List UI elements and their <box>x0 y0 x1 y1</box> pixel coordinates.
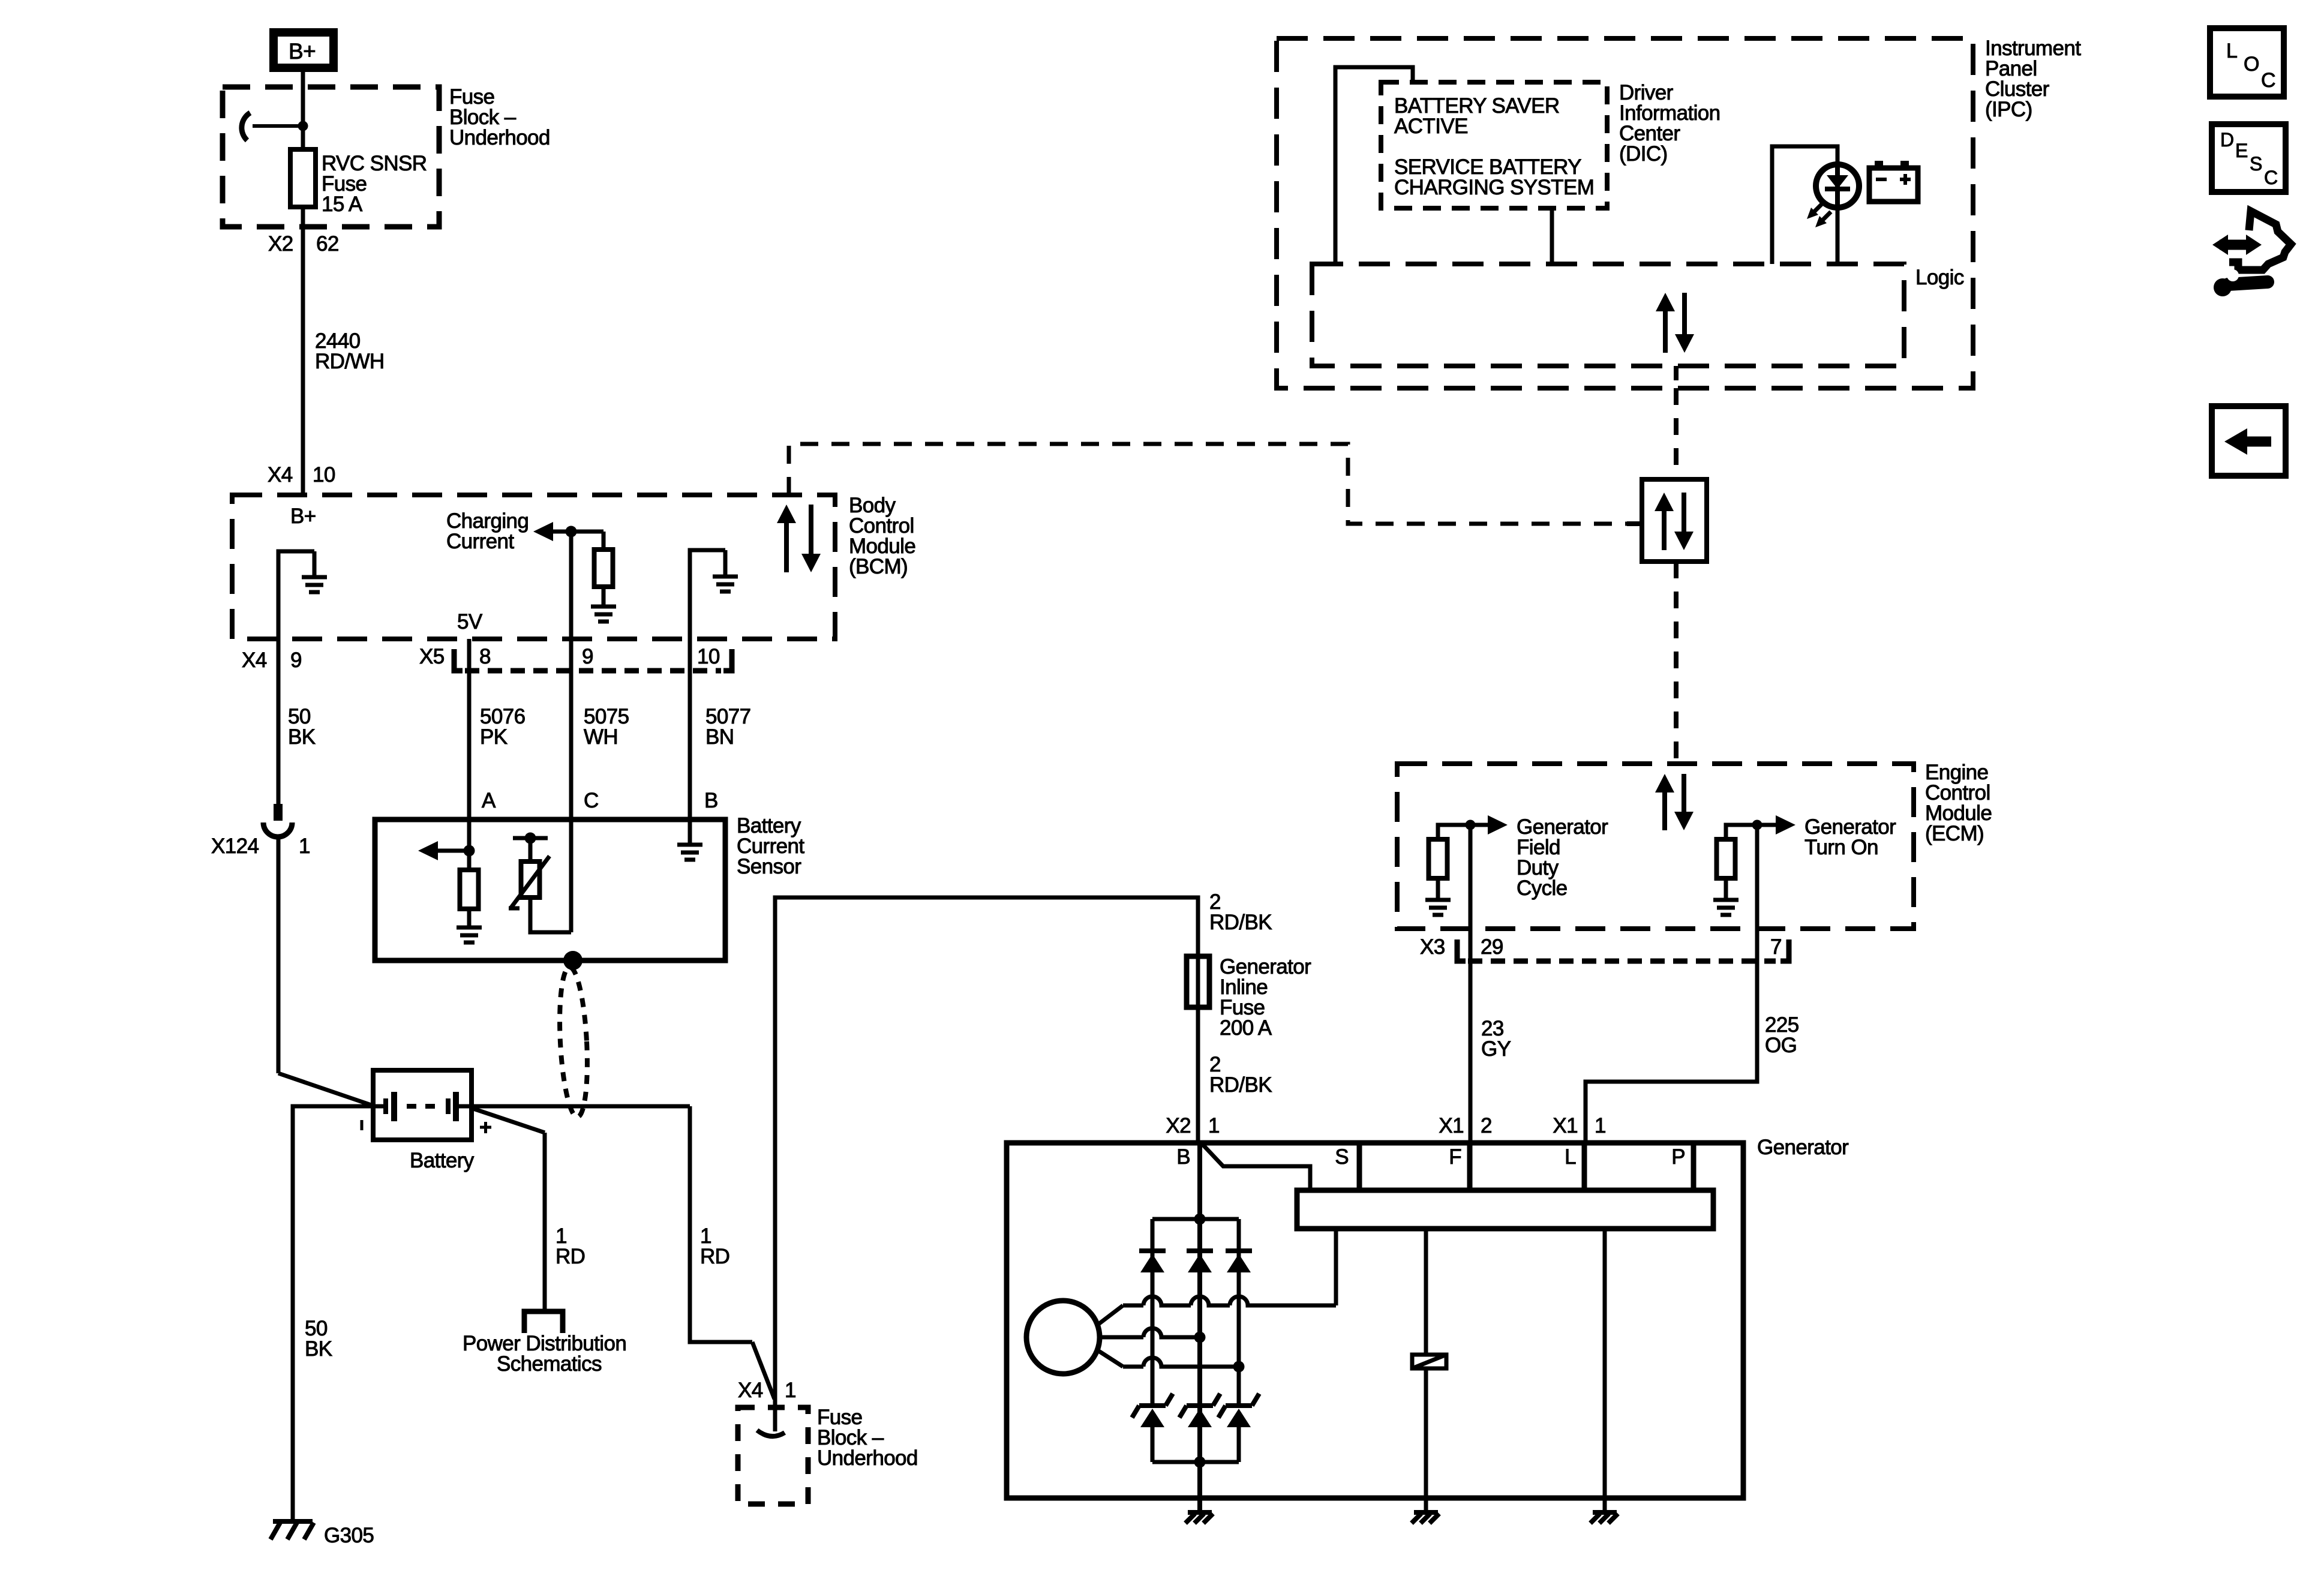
Battery box <box>373 1070 472 1140</box>
ground inside BCM right <box>723 550 728 577</box>
svg-text:Sensor: Sensor <box>737 855 801 878</box>
ground below generator B <box>1185 1512 1213 1523</box>
svg-text:Underhood: Underhood <box>449 126 550 149</box>
B terminal slash wire to regulator <box>1202 1144 1310 1190</box>
wire 1 RD to power distribution <box>472 1108 545 1133</box>
resistor R4 in ECM <box>1717 839 1736 878</box>
Generator box <box>1007 1143 1743 1498</box>
svg-text:Underhood: Underhood <box>817 1446 918 1470</box>
svg-text:8: 8 <box>479 645 491 668</box>
svg-text:Generator: Generator <box>1757 1136 1849 1159</box>
connector hook in fuse block 2 <box>757 1430 785 1436</box>
BCM internal pin10 wire to ground <box>690 550 725 639</box>
svg-text:200 A: 200 A <box>1220 1016 1272 1040</box>
svg-text:X1: X1 <box>1553 1114 1578 1137</box>
wire ECM X3-29 <box>1469 825 1473 929</box>
junction node on B+ wire <box>298 121 308 131</box>
resistor R3 in ECM <box>1429 839 1448 878</box>
rectifier diode D1 <box>1139 1251 1166 1272</box>
rectifier columns <box>1151 1219 1155 1403</box>
ground in ECM under R3 <box>1436 878 1440 900</box>
svg-text:E: E <box>2235 140 2248 161</box>
svg-text:BK: BK <box>288 725 316 749</box>
zener diode Z3 <box>1218 1394 1259 1427</box>
svg-text:15 A: 15 A <box>322 193 363 216</box>
off-page connector power distribution <box>524 1311 563 1333</box>
splice node on sensor bottom <box>563 951 582 970</box>
ground under BCM resistor <box>602 587 606 607</box>
wrench icon <box>2214 278 2232 296</box>
svg-text:PK: PK <box>480 725 508 749</box>
wire 5076 PK <box>467 639 472 819</box>
node A junction <box>464 845 475 857</box>
wire 1 RD to fuse block <box>690 1106 752 1342</box>
svg-text:B: B <box>704 789 718 812</box>
wire connector to junction <box>253 124 303 128</box>
svg-text:X124: X124 <box>211 834 259 858</box>
wire 23 GY <box>1469 929 1473 1143</box>
svg-text:C: C <box>584 789 599 812</box>
svg-text:Logic: Logic <box>1915 266 1964 289</box>
fuse block underhood dashed box <box>223 87 439 227</box>
ground inside BCM left <box>313 551 317 577</box>
ground in sensor under R2 <box>467 909 472 927</box>
signal arrow pin A <box>418 841 438 860</box>
svg-text:A: A <box>482 789 496 812</box>
sensor pin B to ground <box>688 819 692 845</box>
junction node charging current <box>566 526 577 538</box>
battery cells <box>391 1092 397 1121</box>
regulator drop to field coil <box>1424 1229 1428 1355</box>
svg-text:X2: X2 <box>1166 1114 1191 1137</box>
signal arrow field duty cycle <box>1488 815 1508 834</box>
svg-text:S: S <box>2250 153 2262 175</box>
battery terminal labels <box>361 1120 364 1130</box>
fuse RVC SNSR 15A <box>290 149 316 207</box>
svg-text:(IPC): (IPC) <box>1985 98 2032 121</box>
svg-text:X4: X4 <box>268 463 293 487</box>
current loop dashed ellipse <box>556 966 590 1118</box>
svg-text:10: 10 <box>313 463 335 487</box>
wire ECM pin 7 <box>1755 825 1759 929</box>
wire 2 RD/BK from sensor loop to generator <box>775 897 1198 1431</box>
Engine Control Module (ECM) dashed box <box>1397 764 1914 929</box>
regulator drop P side <box>1603 1229 1607 1511</box>
svg-text:L: L <box>1565 1145 1576 1169</box>
rectifier bottom rail <box>1151 1427 1155 1462</box>
svg-text:RD/BK: RD/BK <box>1209 911 1272 934</box>
svg-text:1: 1 <box>1595 1114 1606 1137</box>
svg-text:WH: WH <box>584 725 618 749</box>
field coil symbol <box>1412 1355 1446 1368</box>
rectifier diode D2 <box>1187 1251 1213 1272</box>
svg-text:Schematics: Schematics <box>497 1352 602 1376</box>
rectifier top rail <box>1152 1217 1239 1221</box>
BCM serial data up/down arrows <box>777 505 821 572</box>
battery icon IPC <box>1875 161 1883 168</box>
svg-text:Cycle: Cycle <box>1517 876 1568 900</box>
resistor R1 in BCM <box>594 550 613 587</box>
svg-text:C: C <box>2261 69 2275 92</box>
svg-text:9: 9 <box>582 645 593 668</box>
diagnostic vehicle icon <box>2220 240 2254 250</box>
svg-text:B+: B+ <box>290 505 316 528</box>
signal arrow turn on <box>1776 815 1795 834</box>
wire generator field duty cycle <box>1438 825 1488 839</box>
wire arrow to node A <box>437 849 469 853</box>
connector terminal arc in fuse block <box>242 113 250 140</box>
svg-text:9: 9 <box>290 649 302 672</box>
wire sensor pin A <box>467 819 472 870</box>
svg-text:X5: X5 <box>419 645 445 668</box>
svg-text:L: L <box>2226 40 2237 62</box>
svg-text:C: C <box>2264 167 2278 188</box>
svg-text:BN: BN <box>705 725 734 749</box>
svg-text:Current: Current <box>446 530 514 553</box>
wire 50 BK upper <box>277 639 281 804</box>
svg-text:RD: RD <box>556 1245 585 1268</box>
svg-text:GY: GY <box>1481 1037 1511 1061</box>
svg-text:X4: X4 <box>242 649 267 672</box>
Logic dashed box <box>1312 264 1904 366</box>
serial data dashed wire BCM to gateway <box>789 444 1627 524</box>
svg-text:62: 62 <box>316 232 339 256</box>
wire 225 OG <box>1586 929 1757 1143</box>
svg-text:OG: OG <box>1765 1034 1797 1057</box>
ground below field coil <box>1412 1512 1439 1523</box>
DIC dashed box <box>1381 82 1607 208</box>
svg-text:G305: G305 <box>324 1524 374 1547</box>
battery positive wire <box>458 1104 690 1109</box>
stator winding row 1 with hops <box>1123 1296 1336 1305</box>
svg-text:5V: 5V <box>457 610 483 634</box>
svg-text:X1: X1 <box>1439 1114 1464 1137</box>
serial data gateway box <box>1642 479 1707 562</box>
fuse block underhood 2 dashed box <box>738 1407 808 1504</box>
S sense wire <box>1334 1229 1338 1305</box>
svg-text:B+: B+ <box>289 39 316 64</box>
svg-text:O: O <box>2244 53 2259 76</box>
svg-text:RD/WH: RD/WH <box>315 350 385 373</box>
svg-text:X3: X3 <box>1420 935 1445 959</box>
Generator inline fuse 200A <box>1187 956 1209 1007</box>
svg-text:29: 29 <box>1481 935 1503 959</box>
svg-text:(ECM): (ECM) <box>1925 822 1984 845</box>
Instrument Panel Cluster (IPC) dashed box <box>1277 38 1973 388</box>
svg-text:S: S <box>1335 1145 1349 1169</box>
battery negative wire to ground <box>293 1106 384 1520</box>
connector slot dividers <box>1357 1143 1362 1190</box>
serial data dashed wire IPC down <box>1674 388 1679 479</box>
wire 50 BK to battery <box>277 837 281 1073</box>
svg-text:10: 10 <box>697 645 720 668</box>
resistor R2 in sensor <box>460 870 479 909</box>
stub below Logic box <box>1674 366 1679 380</box>
ECM serial up/down arrows <box>1655 774 1694 830</box>
wire to BCM resistor <box>602 532 606 550</box>
wire B+ down to BCM X4-10 <box>301 72 305 496</box>
svg-text:D: D <box>2220 129 2234 151</box>
svg-text:(BCM): (BCM) <box>849 555 908 578</box>
stator winding row 3 <box>1123 1358 1239 1367</box>
Body Control Module (BCM) dashed box <box>232 495 835 639</box>
rotor circle <box>1026 1301 1100 1374</box>
Battery Current Sensor box <box>375 819 725 960</box>
svg-text:7: 7 <box>1770 935 1782 959</box>
DESC icon <box>2212 124 2286 192</box>
svg-text:ACTIVE: ACTIVE <box>1394 115 1468 138</box>
node X3-29 junction <box>1466 820 1476 830</box>
ground G305 <box>271 1521 314 1539</box>
zener diode Z2 <box>1179 1394 1220 1427</box>
wire charging current to resistor <box>552 530 603 534</box>
ground below generator P <box>1590 1512 1618 1523</box>
svg-text:RD/BK: RD/BK <box>1209 1073 1272 1097</box>
node pin7 junction <box>1752 820 1762 830</box>
IPC internal wires <box>1335 67 1413 264</box>
rectifier diode D3 <box>1226 1251 1252 1272</box>
svg-text:1: 1 <box>299 834 310 858</box>
LED light arrows <box>1813 203 1822 213</box>
svg-text:2: 2 <box>1481 1114 1492 1137</box>
svg-text:B: B <box>1176 1145 1190 1169</box>
serial data dashed wire to ECM <box>1674 562 1679 764</box>
back arrow icon <box>2212 406 2286 476</box>
svg-text:CHARGING SYSTEM: CHARGING SYSTEM <box>1394 176 1594 199</box>
ground in ECM under R4 <box>1724 878 1728 900</box>
svg-text:1: 1 <box>1208 1114 1220 1137</box>
LOC icon <box>2210 28 2284 97</box>
svg-text:(DIC): (DIC) <box>1619 142 1668 166</box>
wire generator turn on <box>1726 825 1776 839</box>
svg-text:Battery: Battery <box>410 1149 475 1172</box>
LED loop wires <box>1772 146 1837 264</box>
B wire down through rectifier to ground <box>1197 1143 1202 1511</box>
zener diode Z1 <box>1132 1394 1173 1427</box>
connector X5 dotted line with brackets <box>454 649 463 671</box>
wire BCM pin9 (5075) <box>569 532 574 819</box>
svg-text:P: P <box>1671 1145 1685 1169</box>
svg-text:X4: X4 <box>738 1379 763 1402</box>
connector X124 <box>274 804 283 821</box>
svg-text:F: F <box>1449 1145 1461 1169</box>
sensor pin C wire <box>569 819 574 932</box>
charging current arrow <box>533 522 553 541</box>
wire 5077 BN <box>688 639 692 819</box>
svg-text:BK: BK <box>305 1337 332 1361</box>
svg-text:1: 1 <box>785 1379 796 1402</box>
stator winding row 2 <box>1100 1328 1200 1337</box>
charge indicator LED <box>1816 164 1859 208</box>
Logic serial up/down arrows <box>1656 293 1694 353</box>
svg-text:Turn On: Turn On <box>1804 836 1878 859</box>
thermistor <box>513 836 548 840</box>
svg-text:RD: RD <box>700 1245 729 1268</box>
BCM internal wire X4-9 to ground <box>278 551 314 639</box>
B+ power terminal <box>274 32 334 68</box>
svg-text:X2: X2 <box>268 232 293 256</box>
voltage regulator bar <box>1297 1190 1713 1229</box>
